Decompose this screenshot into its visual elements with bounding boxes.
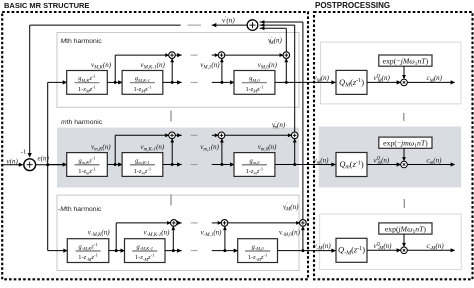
svg-text:exp(jMω1​nT): exp(jMω1​nT) [385, 224, 427, 235]
svg-text:BASIC MR STRUCTURE: BASIC MR STRUCTURE [4, 1, 89, 10]
svg-text:mth harmonic: mth harmonic [61, 119, 103, 126]
svg-text:v′​(n): v′​(n) [222, 16, 235, 25]
svg-text:-Mth harmonic: -Mth harmonic [58, 206, 102, 213]
svg-text:POSTPROCESSING: POSTPROCESSING [315, 1, 390, 10]
svg-text:-1: -1 [21, 149, 27, 156]
svg-text:Mth harmonic: Mth harmonic [61, 38, 103, 45]
svg-text:v(n): v(n) [7, 157, 19, 165]
svg-text:QM​(z-1​): QM​(z-1​) [339, 78, 364, 89]
